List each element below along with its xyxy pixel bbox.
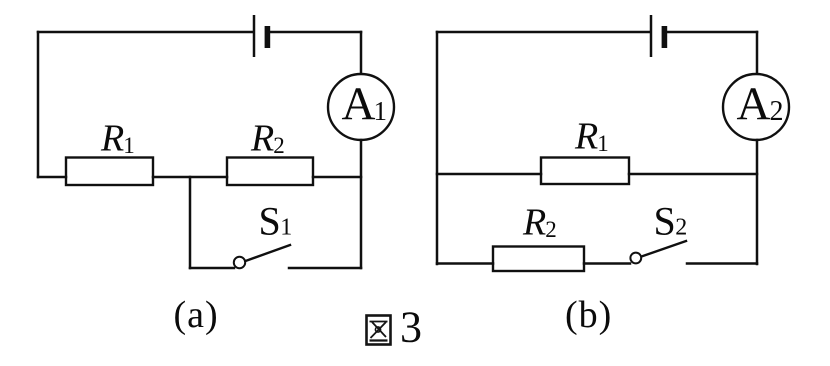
wire switch to right rail xyxy=(687,262,757,265)
wire switch branch left xyxy=(190,267,234,270)
battery B1 long plate xyxy=(253,15,256,57)
ammeter A1 xyxy=(328,74,394,140)
svg-text:S1: S1 xyxy=(259,199,293,244)
switch S2 blade xyxy=(642,241,687,257)
wire middle rail left segment xyxy=(437,173,541,176)
wire R2 to switch xyxy=(584,262,630,265)
wire left side xyxy=(37,32,40,177)
svg-text:S2: S2 xyxy=(654,199,688,244)
svg-text:3: 3 xyxy=(400,303,422,352)
wire battery to top-right corner xyxy=(270,31,361,34)
wire left side xyxy=(436,32,439,264)
wire battery to top-right corner xyxy=(667,31,757,34)
battery B2 long plate xyxy=(650,15,653,57)
caption glyph 图 xyxy=(367,316,391,345)
resistor R1 (b) xyxy=(541,158,629,185)
wire bottom rail left segment xyxy=(437,262,493,265)
resistor R1 xyxy=(66,158,153,186)
svg-text:R1: R1 xyxy=(100,118,135,160)
ammeter A2 xyxy=(723,74,789,140)
wire ammeter down right side xyxy=(756,140,759,264)
wire middle rail left segment xyxy=(38,176,66,179)
wire switch branch right xyxy=(289,267,361,270)
wire ammeter to middle rail and down to switch rail xyxy=(360,140,363,268)
wire between R1 and R2 xyxy=(153,176,227,179)
battery B1 short thick plate xyxy=(265,26,271,48)
svg-text:(a): (a) xyxy=(174,294,219,336)
wire top-left to battery xyxy=(437,31,650,34)
resistor R2 xyxy=(227,158,313,186)
wire R2 to right rail xyxy=(313,176,361,179)
switch S1 blade xyxy=(246,245,291,261)
switch S1 pivot xyxy=(234,257,245,268)
wire R1 to right rail xyxy=(629,173,757,176)
wire junction down to switch branch xyxy=(189,177,192,268)
switch S2 pivot xyxy=(630,253,641,264)
svg-text:R2: R2 xyxy=(522,202,557,244)
battery B2 short thick plate xyxy=(662,26,668,48)
svg-text:R2: R2 xyxy=(250,118,285,160)
wire top-right down to ammeter xyxy=(360,32,363,74)
wire top-right down to ammeter xyxy=(756,32,759,74)
svg-text:R1: R1 xyxy=(574,116,609,158)
svg-text:(b): (b) xyxy=(565,294,612,336)
wire top-left to battery xyxy=(38,31,253,34)
resistor R2 (b) xyxy=(493,247,584,272)
